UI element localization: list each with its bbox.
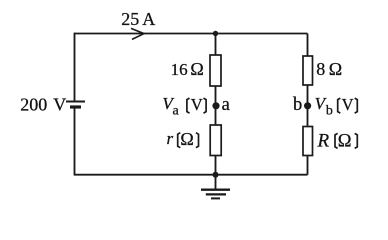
svg-text:Ω: Ω	[329, 59, 342, 79]
svg-text:V: V	[191, 95, 203, 114]
svg-text:16: 16	[171, 60, 188, 79]
svg-text:V: V	[342, 95, 354, 114]
svg-text:8: 8	[316, 59, 325, 79]
svg-text:r: r	[167, 129, 174, 148]
svg-text:25: 25	[121, 9, 139, 29]
svg-text:a: a	[222, 95, 230, 115]
svg-text:Ω: Ω	[190, 59, 203, 79]
svg-text:b: b	[293, 95, 302, 115]
svg-text:R: R	[317, 130, 330, 151]
svg-text:a: a	[173, 104, 180, 119]
svg-text:200: 200	[20, 94, 47, 114]
svg-text:A: A	[142, 9, 155, 29]
svg-text:Ω: Ω	[338, 132, 352, 152]
svg-text:b: b	[326, 103, 333, 118]
svg-text:V: V	[53, 94, 66, 114]
svg-text:Ω: Ω	[180, 129, 193, 149]
